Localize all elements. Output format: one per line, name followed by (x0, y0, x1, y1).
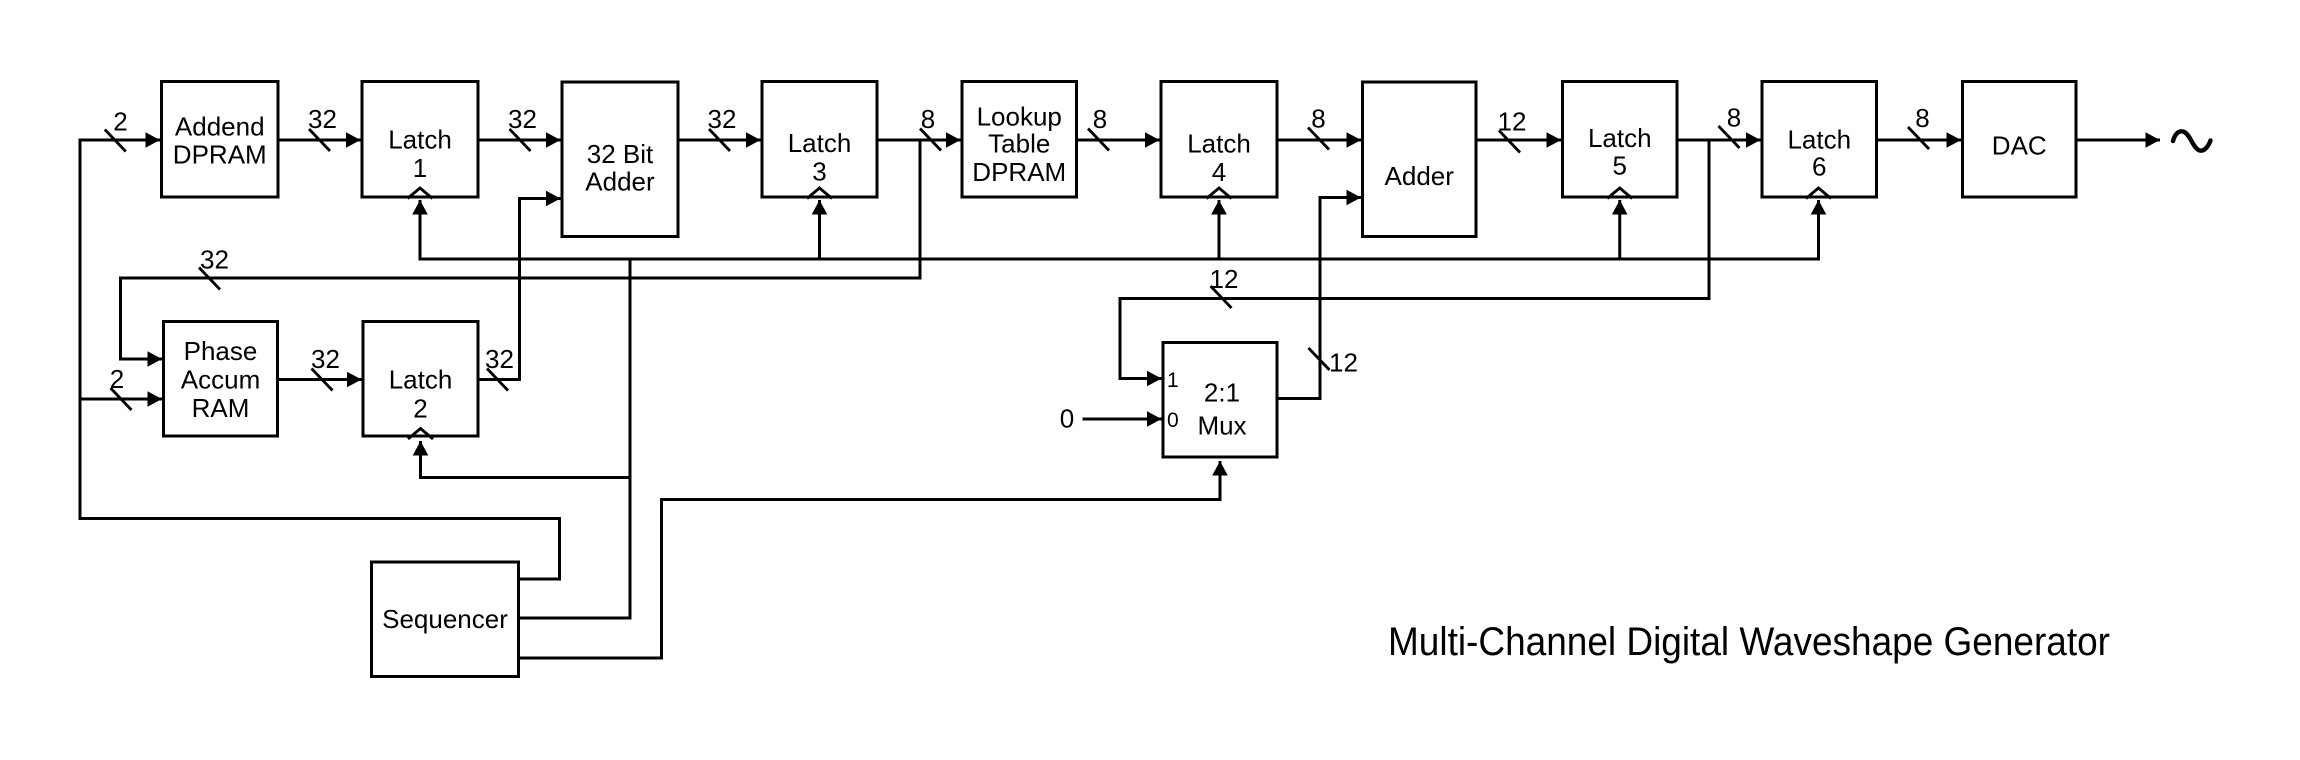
svg-text:Table: Table (988, 129, 1050, 159)
svg-text:DAC: DAC (1992, 131, 2047, 161)
clock riser Latch 4 (1218, 200, 1221, 259)
clock caret Latch 6 (1806, 188, 1831, 199)
clock caret Latch 5 (1607, 188, 1632, 199)
bus-width slash 2 on input wire (105, 130, 126, 152)
svg-text:Sequencer: Sequencer (382, 604, 508, 634)
svg-text:2: 2 (113, 107, 127, 137)
wire 0 into Mux input 0 (1083, 418, 1162, 421)
bus-width slash 2 phase (111, 388, 132, 410)
wire 12-bit feedback horizontal (1119, 297, 1711, 300)
bus-width slash 12 A (1499, 131, 1520, 153)
wire feedback horizontal (121, 277, 922, 280)
bus-width slash 12 feedback (1211, 286, 1232, 308)
wire Latch 5 to Latch 6 (1677, 139, 1761, 142)
svg-text:32: 32 (708, 104, 737, 134)
bus-width slash 8 C (1308, 128, 1329, 150)
bus-width slash 12 mux out (1309, 348, 1330, 370)
svg-text:Adder: Adder (1385, 161, 1455, 191)
svg-text:6: 6 (1812, 152, 1826, 182)
block 32 Bit Adder (562, 82, 678, 237)
bus-width slash 8 D (1719, 126, 1740, 148)
svg-text:8: 8 (1311, 104, 1325, 134)
svg-text:Accum: Accum (181, 365, 260, 395)
block Sequencer (372, 562, 519, 677)
svg-text:32: 32 (200, 245, 229, 275)
wire into Mux input 1 (1119, 297, 1122, 379)
svg-text:Mux: Mux (1197, 411, 1246, 441)
svg-text:Multi-Channel Digital Waveshap: Multi-Channel Digital Waveshape Generato… (1388, 620, 2110, 664)
svg-text:Addend: Addend (175, 112, 265, 142)
block Latch 4 (1161, 82, 1277, 198)
clock riser Latch 6 (1817, 200, 1820, 261)
block Addend DPRAM (162, 82, 279, 198)
svg-text:0: 0 (1167, 409, 1179, 432)
svg-text:RAM: RAM (192, 393, 250, 423)
clock caret Latch 4 (1207, 188, 1232, 199)
svg-text:Latch: Latch (1187, 129, 1251, 159)
svg-text:2: 2 (413, 394, 427, 424)
svg-text:Lookup: Lookup (977, 102, 1062, 132)
svg-text:12: 12 (1329, 348, 1358, 378)
block Latch 2 (363, 322, 478, 437)
svg-text:32: 32 (311, 344, 340, 374)
wire Addend DPRAM to Latch 1 (278, 139, 361, 142)
svg-text:3: 3 (812, 157, 826, 187)
wire channel select bottom (79, 517, 560, 520)
wire feedback down to Phase Accum RAM (119, 277, 122, 360)
block Lookup Table DPRAM (962, 82, 1077, 198)
svg-text:32: 32 (508, 104, 537, 134)
block Latch 1 (362, 82, 478, 198)
bus-width slash 8 A (920, 129, 941, 151)
clock riser Latch 3 (818, 200, 821, 259)
block Phase Accum RAM (164, 322, 278, 437)
svg-text:Adder: Adder (585, 167, 655, 197)
wire Latch 5 output feedback (1708, 140, 1711, 299)
svg-text:1: 1 (413, 153, 427, 183)
svg-text:32: 32 (485, 344, 514, 374)
svg-text:2:1: 2:1 (1204, 378, 1240, 408)
wire Sequencer select output (520, 578, 562, 581)
wire 32-bit feedback from Latch 3 output (919, 140, 922, 278)
svg-text:Latch: Latch (1787, 125, 1851, 155)
svg-text:Latch: Latch (1588, 123, 1652, 153)
wire channel select vertical (79, 139, 82, 521)
svg-text:8: 8 (1727, 103, 1741, 133)
bus-width slash 32 B (510, 129, 531, 151)
wire Latch 4 to Adder (1277, 139, 1361, 142)
clock caret Latch 2 (408, 429, 433, 440)
svg-text:Phase: Phase (184, 336, 258, 366)
clock riser Latch 5 (1618, 200, 1621, 259)
svg-text:5: 5 (1613, 151, 1627, 181)
wire Sequencer clock output (520, 617, 632, 620)
clock bus horizontal (419, 258, 1819, 261)
svg-text:Latch: Latch (388, 125, 452, 155)
bus-width slash 8 B (1088, 129, 1109, 151)
svg-text:0: 0 (1060, 404, 1074, 434)
wire Adder to Latch 5 (1476, 139, 1561, 142)
block 2:1 Mux (1163, 343, 1277, 458)
block Latch 6 (1762, 82, 1877, 198)
svg-text:8: 8 (921, 104, 935, 134)
bus-width slash 32 C (709, 129, 730, 151)
svg-text:32: 32 (308, 104, 337, 134)
bus-width slash 32 phase out (312, 369, 333, 391)
sine wave output symbol (2173, 131, 2211, 150)
clock riser Latch 1 (419, 200, 422, 261)
svg-text:DPRAM: DPRAM (173, 140, 267, 170)
svg-text:1: 1 (1167, 369, 1179, 392)
svg-text:12: 12 (1498, 107, 1527, 137)
svg-text:4: 4 (1212, 157, 1226, 187)
wire Latch 6 to DAC (1877, 139, 1962, 142)
bus-width slash 8 E (1908, 127, 1929, 149)
bus-width slash 32 feedback (199, 268, 220, 290)
svg-text:32 Bit: 32 Bit (587, 139, 654, 169)
clock caret Latch 1 (408, 188, 433, 199)
wire Latch 3 to Lookup Table DPRAM (877, 139, 961, 142)
wire Phase Accum RAM to Latch 2 (278, 378, 362, 381)
svg-text:12: 12 (1210, 264, 1239, 294)
wire input into Addend DPRAM (80, 139, 160, 142)
block DAC (1963, 82, 2077, 198)
wire DAC to output (2076, 139, 2160, 142)
wire Lookup Table DPRAM to Latch 4 (1077, 139, 1160, 142)
clock caret Latch 3 (807, 188, 832, 199)
block Latch 5 (1563, 82, 1678, 198)
svg-text:8: 8 (1915, 103, 1929, 133)
svg-text:DPRAM: DPRAM (972, 157, 1066, 187)
wire Mux output to Adder (1277, 397, 1320, 400)
bus-width slash 32 latch2 out (487, 369, 508, 391)
svg-text:2: 2 (110, 364, 124, 394)
wire Latch 2 clock tap (421, 476, 631, 479)
svg-text:Latch: Latch (788, 128, 852, 158)
svg-text:Latch: Latch (389, 365, 453, 395)
block Latch 3 (762, 82, 877, 198)
bus-width slash 32 A (309, 129, 330, 151)
wire Latch 1 to 32 Bit Adder (478, 139, 561, 142)
wire channel select riser (558, 517, 561, 579)
wire Mux select from Sequencer (520, 657, 662, 660)
wire 32 Bit Adder to Latch 3 (678, 139, 761, 142)
svg-text:8: 8 (1093, 104, 1107, 134)
clock feed vertical from Sequencer (629, 258, 632, 619)
wire select into Phase Accum RAM (80, 398, 162, 401)
wire Latch 2 to 32 Bit Adder (478, 378, 520, 381)
block Adder (1363, 82, 1477, 237)
